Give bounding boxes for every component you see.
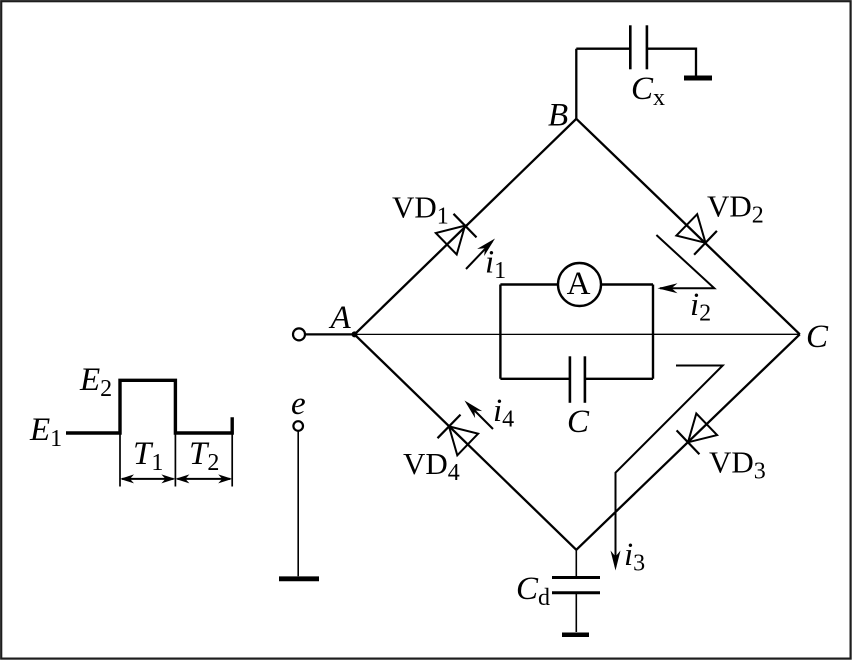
current arrow i3 bbox=[611, 366, 723, 571]
wire arm C-D bbox=[576, 334, 800, 550]
terminal e circle bbox=[293, 421, 303, 431]
diode VD2 bbox=[676, 214, 717, 255]
svg-text:B: B bbox=[548, 98, 568, 134]
dimension boundary line at waveform end bbox=[231, 433, 233, 487]
measuring branch rectangle left wire bbox=[499, 285, 501, 379]
wire arm D-A bbox=[355, 334, 577, 549]
wire B stub up bbox=[575, 49, 577, 119]
dimension boundary line at pulse end bbox=[174, 433, 176, 487]
current arrow i2 bbox=[656, 235, 714, 293]
dimension arrow T1 bbox=[120, 474, 175, 483]
wire arm A-B bbox=[355, 119, 577, 335]
svg-text:A: A bbox=[567, 266, 591, 302]
node A dot bbox=[352, 331, 358, 337]
wire e to ground bbox=[297, 431, 299, 576]
wire Cd to ground bbox=[575, 593, 577, 632]
wire thin line A to C bbox=[355, 333, 800, 335]
ground bar at Cx bbox=[684, 76, 712, 81]
svg-text:C: C bbox=[567, 404, 590, 440]
pulse waveform trace E1/E2 bbox=[66, 380, 232, 434]
measuring branch rectangle top wire bbox=[500, 283, 653, 285]
current arrow i4 bbox=[461, 397, 493, 429]
capacitor Cx bbox=[630, 25, 647, 69]
dimension arrow T2 bbox=[175, 474, 232, 483]
wire terminal to node A bbox=[305, 333, 354, 335]
measuring branch rectangle bottom wire bbox=[500, 378, 653, 380]
capacitor C bbox=[570, 356, 585, 403]
terminal A circle bbox=[293, 328, 305, 340]
svg-text:A: A bbox=[329, 300, 352, 336]
capacitor Cd bbox=[552, 578, 600, 593]
diode VD1 bbox=[436, 214, 477, 255]
measuring branch rectangle right wire bbox=[652, 285, 654, 379]
svg-text:e: e bbox=[291, 386, 306, 422]
dimension boundary line at pulse start bbox=[119, 433, 121, 487]
ammeter A bbox=[558, 263, 601, 306]
wire D to Cd bbox=[575, 550, 577, 577]
ground bar under e bbox=[279, 576, 319, 581]
wire arm B-C bbox=[576, 119, 800, 334]
wire Cx to ground bbox=[647, 49, 696, 76]
wire B to capacitor Cx bbox=[576, 48, 630, 50]
current arrow i1 bbox=[466, 235, 498, 269]
svg-text:C: C bbox=[806, 319, 829, 355]
ground bar at Cd bbox=[562, 633, 589, 638]
diode VD4 bbox=[438, 415, 479, 456]
diode VD3 bbox=[677, 414, 718, 455]
